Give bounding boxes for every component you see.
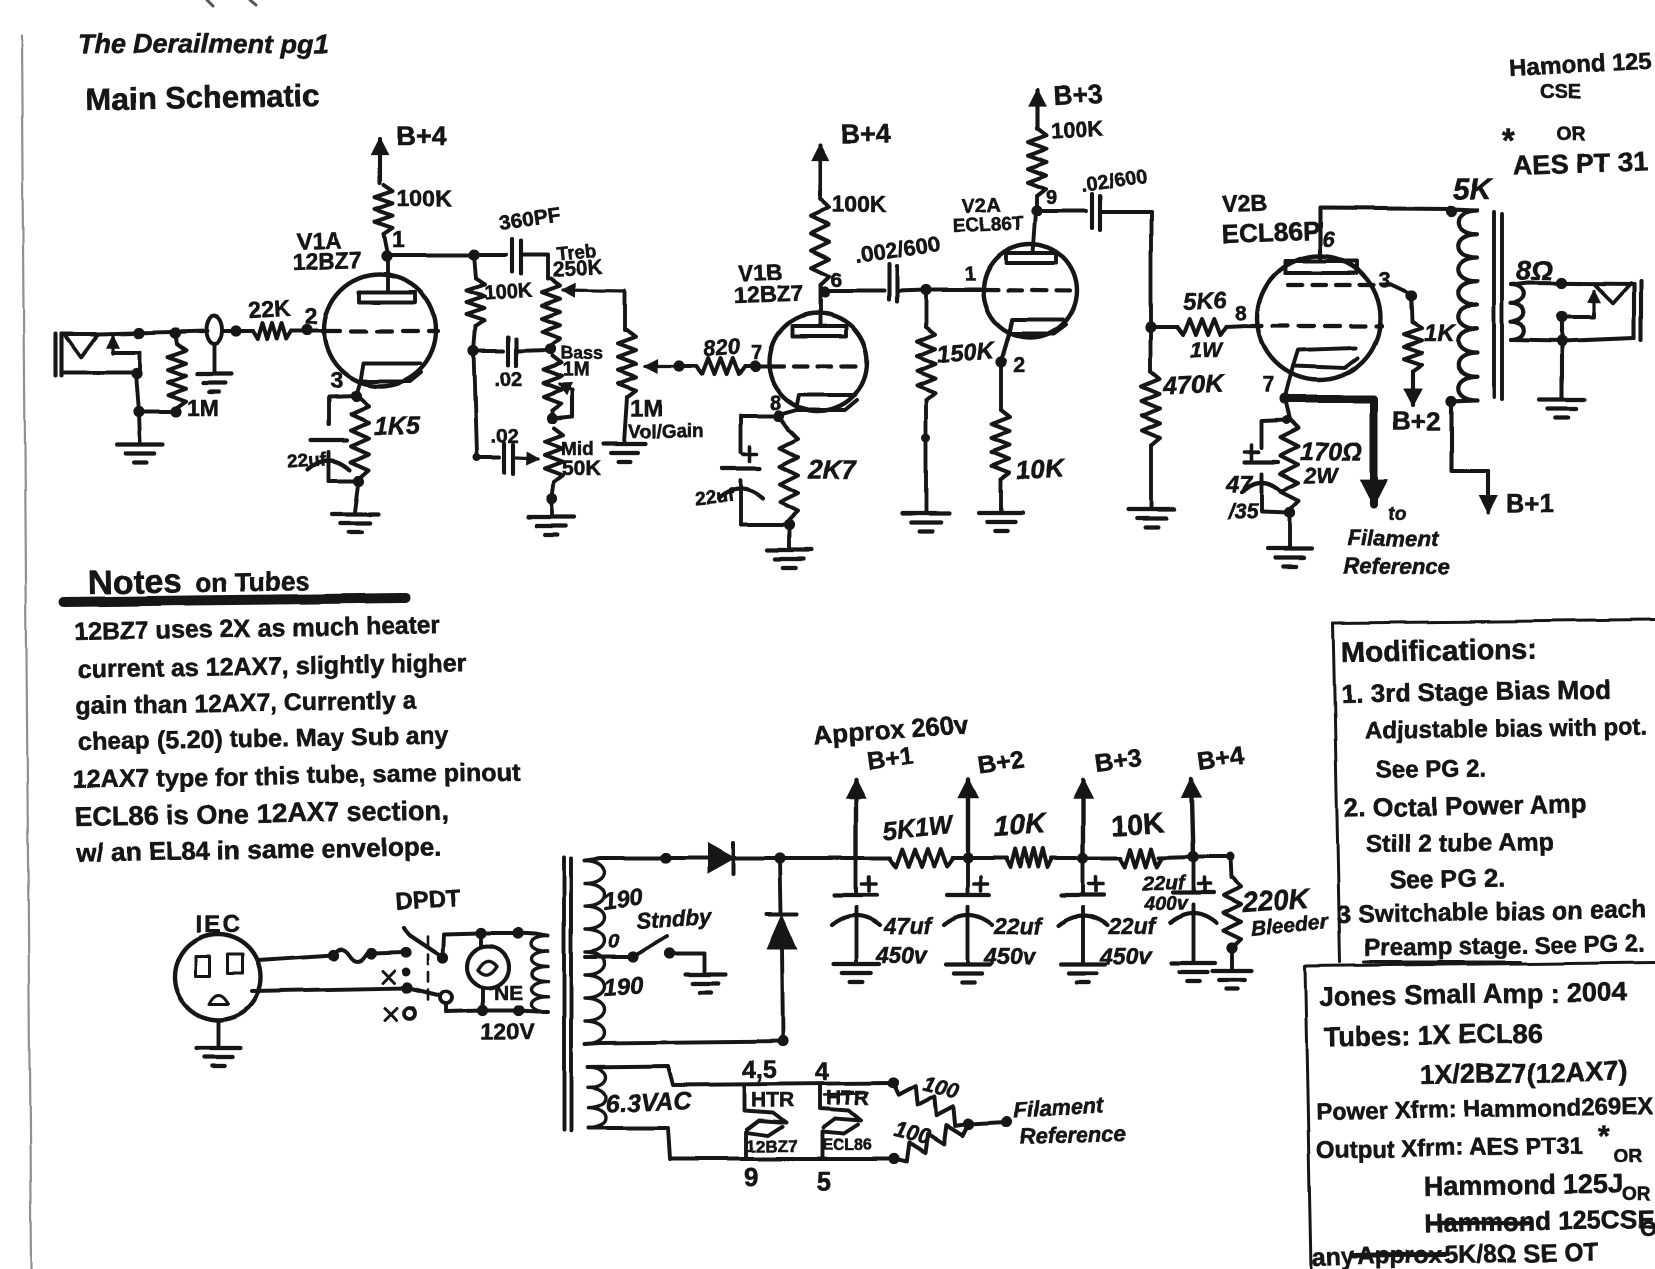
net B+2 arrow (screen) [1411,371,1415,405]
OT core lines [1492,212,1496,397]
svg-text:2K7: 2K7 [807,454,857,484]
wire down to ground (speaker) [1560,317,1564,399]
resistor 220K bleeder [1230,857,1231,878]
wire: throw1 up and right (120V top rail) [443,933,536,958]
svg-text:250K: 250K [552,256,604,282]
resistor 10K (B+2 to B+3) [1006,849,1052,867]
wire: tone stack mid leg [474,351,477,455]
heater connector 12BZ7 upper [744,1086,786,1130]
switch pole 2 dot [401,982,412,993]
V2B cathode [1293,348,1358,368]
svg-text:1W: 1W [1190,339,1224,362]
wire: 100K to node 9 [1035,196,1039,211]
V2A plate bar [1006,253,1056,263]
svg-text:on Tubes: on Tubes [196,566,310,598]
svg-text:9: 9 [1046,187,1057,209]
junction dot [660,852,671,863]
switch lever 1 [410,935,443,957]
heater connector 12BZ7 lower [746,1127,782,1157]
wire: throw2 down and right (120V bottom rail) [446,1004,538,1012]
fuse squiggle [333,949,372,961]
heater connector ECL86 lower [822,1125,858,1156]
junction dot [777,1035,788,1046]
wire: 6.3 top to heater bus [588,1066,892,1085]
resistor 100K (slope) [474,255,476,279]
thick underline bar [64,598,406,602]
svg-text:Stndby: Stndby [636,904,714,934]
ground (standby) [686,972,726,976]
capacitor 22uf 450v filter (B+3) [1081,858,1085,894]
resistor 100K plate V1A [375,185,393,234]
junction dot [468,345,479,356]
resistor 22K (series input) [253,323,291,339]
V2A cathode lead [1001,334,1009,361]
svg-text:1X/2BZ7(12AX7): 1X/2BZ7(12AX7) [1420,1056,1628,1090]
resistor 1M (input shunt) [175,333,177,344]
svg-text:4: 4 [815,1058,829,1086]
svg-text:1: 1 [964,264,975,286]
node dot plate V1A [381,250,392,261]
OT secondary coil [1511,285,1524,340]
junction dot [230,325,241,336]
svg-text:100K: 100K [832,191,887,217]
tube V2A envelope [983,244,1077,338]
ground (input) [139,412,140,443]
resistor 100K plate V1B [811,199,829,285]
node dot OT primary top [1445,205,1456,216]
ground (V1A cathode) [355,481,359,512]
svg-text:V2B: V2B [1222,189,1268,217]
ground (150K) [903,511,949,515]
junction dot 100s [963,1118,974,1129]
svg-text:190: 190 [603,972,645,1002]
junction dot [1145,321,1156,332]
svg-text:Preamp stage. See PG 2.: Preamp stage. See PG 2. [1364,930,1646,962]
svg-text:1K: 1K [1424,320,1456,347]
V1A plate lead [386,256,390,292]
net B+4 arrow (V1B) [818,145,822,196]
node dot [783,519,794,530]
junction dot [169,327,180,338]
treble wiper arrow [563,290,625,291]
wire: standby throw to ground [670,953,705,973]
wire: V1A plate to tone stack [387,253,474,257]
PT core lines [562,857,566,1130]
ground (10K) [979,511,1023,515]
svg-text:gain than 12AX7, Currently a: gain than 12AX7, Currently a [76,686,418,720]
svg-text:1M: 1M [562,359,590,381]
V1A plate bar [359,292,415,302]
svg-text:47: 47 [1225,471,1254,498]
node dot cathode V2B [1280,394,1291,405]
svg-text:HTR: HTR [751,1089,794,1112]
svg-text:1: 1 [392,226,405,252]
junction dot B+4 [1187,851,1198,862]
svg-text:8: 8 [1235,302,1247,325]
junction dot [774,852,785,863]
svg-text:O: O [1640,1216,1655,1241]
V2A cathode [1009,320,1066,334]
net B+3 arrow (supply) [1081,780,1085,858]
pot Bass 1M [543,356,561,410]
capacitor .02 (bass) [474,349,503,353]
svg-text:Main Schematic: Main Schematic [86,78,321,117]
wire: screen to 1K [1392,285,1411,294]
junction dot [327,949,338,960]
speaker jack switch arrow [1592,291,1595,313]
svg-text:12BZ7: 12BZ7 [733,280,803,308]
input jack tip contact [65,334,98,357]
svg-text:22uf: 22uf [993,913,1044,939]
V2B screen grid (dashed) [1288,283,1392,287]
wire: 6.3 bottom to heater bus [588,1128,894,1159]
svg-text:150K: 150K [936,337,997,368]
V2B cathode lead [1285,366,1293,397]
net B+1 arrow [1486,471,1490,512]
wire: HV winding bottom [585,1041,783,1044]
wire: to filament reference point [969,1122,1007,1124]
junction dot mid bottom [546,493,557,504]
svg-text:2. Octal Power Amp: 2. Octal Power Amp [1344,789,1588,823]
standby switch lever [633,936,667,957]
junction dot bass bottom [546,412,557,423]
PT HV secondary coil [585,860,605,1044]
PT primary coil [532,936,549,1012]
V1A cathode lead [356,381,360,395]
svg-text:100K: 100K [484,280,534,305]
node dot [1284,507,1295,518]
junction dot grid V1B [749,360,760,371]
net B+4 arrow (supply) [1191,779,1193,857]
switch gang dashed link [427,936,430,1000]
capacitor .02 (mid) [477,456,499,460]
wire: fuse to switch pole 1 [371,952,405,953]
svg-text:2: 2 [1013,354,1025,377]
standby throw dot [664,947,675,958]
V1B plate lead [818,292,822,326]
svg-text:Hammond 125J: Hammond 125J [1424,1169,1624,1202]
svg-text:6: 6 [1322,227,1335,252]
capacitor .002/600 coupling [824,289,884,293]
svg-text:ECL86T: ECL86T [952,214,1024,237]
svg-text:B+4: B+4 [396,121,446,151]
svg-text:22uf: 22uf [694,485,736,510]
ferrite bead / grommet [206,316,222,344]
tube V1A envelope [324,274,436,386]
node dot OT primary bottom [1445,395,1456,406]
wire: bead to 22K [222,329,253,333]
pot Treble 250K [542,279,560,345]
junction dot [133,406,144,417]
ground for bead [212,344,216,372]
svg-text:10K: 10K [1110,807,1165,843]
svg-text:3 Switchable bias on each: 3 Switchable bias on each [1337,896,1647,929]
svg-text:450v: 450v [1099,943,1152,969]
svg-text:820: 820 [703,333,742,361]
svg-text:B+2: B+2 [1392,406,1440,436]
resistor 100 (heater bottom) [894,1124,969,1162]
ground (22uf B+2) [946,962,990,966]
svg-text:NE: NE [494,982,523,1005]
small dot [473,454,481,462]
wire: center tap to standby switch [585,955,632,959]
wire: jack switch to sleeve [113,352,140,373]
svg-text:.02: .02 [494,369,522,391]
svg-text:3: 3 [330,367,343,393]
svg-text:12BZ7: 12BZ7 [292,247,362,275]
IEC inlet connector [175,934,261,1020]
svg-text:1. 3rd Stage Bias Mod: 1. 3rd Stage Bias Mod [1341,674,1612,709]
unused contact X [382,971,394,983]
junction dot pin 2 [301,324,312,335]
svg-text:50K: 50K [562,457,601,480]
resistor 5K6 1W [1151,325,1177,329]
ground (V1B cathode) [787,525,791,548]
svg-text:2: 2 [305,303,318,329]
svg-text:100K: 100K [397,185,452,211]
speaker jack J2 [1632,284,1636,338]
svg-text:12BZ7: 12BZ7 [746,1137,797,1156]
NE lamp leads [479,933,483,946]
switch lever 2 [407,988,440,996]
wire: top rail to D2 [780,858,781,914]
wire: 22K to V1A grid pin 2 [291,329,325,333]
resistor 10K (B+3 to B+4) [1120,849,1162,867]
wire: B+4 node to bleeder [1193,855,1230,859]
node dot cathode V1B [773,410,784,421]
junction dot heater top [887,1077,898,1088]
svg-text:CSE: CSE [1540,81,1581,103]
unused contact X 2 [385,1008,397,1020]
node dot cathode bottom [353,475,364,486]
speaker jack tip contact [1595,283,1631,303]
svg-text:OR: OR [1556,124,1585,145]
svg-text:1M: 1M [630,395,663,422]
svg-text:22uf: 22uf [287,449,328,473]
svg-text:Vol/Gain: Vol/Gain [628,422,704,443]
standby switch pole dot [627,951,638,962]
net B+4 arrow (V1A) [378,139,382,183]
node dot [1406,290,1417,301]
svg-text:B+3: B+3 [1052,78,1104,111]
svg-text:to: to [1388,504,1406,525]
svg-text:6.3VAC: 6.3VAC [605,1087,693,1118]
node dot bleeder bottom [1226,942,1237,953]
svg-text:7: 7 [1262,372,1274,397]
tube V1B envelope [769,313,867,411]
resistor 1K screen [1412,296,1413,322]
input jack J1 [54,334,58,375]
svg-text:120V: 120V [481,1019,535,1045]
svg-text:1K5: 1K5 [374,412,421,440]
ground (speaker jack) [1540,398,1584,402]
junction dot [920,284,931,295]
modifications box border [1333,620,1655,623]
ground (IEC) [216,1020,220,1046]
wire: 1M bottom to ground node [139,410,176,414]
svg-text:Modifications:: Modifications: [1341,634,1538,669]
svg-text:5K: 5K [1453,173,1494,206]
wire: HV top to rectifier [585,858,708,860]
svg-text:OR: OR [1614,1146,1643,1167]
input jack switch arrow [111,336,114,353]
diode D1 (series rectifier) [708,844,733,872]
svg-text:ECL86P: ECL86P [1221,216,1320,249]
svg-text:Filament: Filament [1347,526,1439,551]
wire: secondary bottom to jack [1511,338,1634,341]
junction dot B+3 [1077,852,1088,863]
V2A plate lead [1033,212,1036,253]
capacitor 22uf (V1B cathode) [741,416,779,452]
svg-text:/35: /35 [1227,499,1259,524]
output transformer primary coil [1458,210,1477,400]
svg-text:10K: 10K [992,807,1047,842]
svg-text:0: 0 [608,931,619,953]
svg-text:470K: 470K [1162,369,1226,400]
junction dot vol wiper [673,360,684,371]
net B+1 arrow (supply) [854,780,858,858]
net B+2 arrow (supply) [966,780,970,858]
switch throw 1 dot [437,952,448,963]
svg-text:22uf: 22uf [1142,873,1186,895]
wire: treble wiper to volume pot [623,291,627,330]
wire: jack tip to ferrite bead [98,331,207,334]
svg-text:*: * [1598,1120,1610,1153]
vol wiper arrow [645,364,679,367]
wire: 100K to plate node [384,234,388,255]
svg-text:DPDT: DPDT [395,884,462,916]
svg-text:w/ an EL84 in same envelope.: w/ an EL84 in same envelope. [75,832,442,868]
ground (170 ohm) [1288,513,1292,548]
PT 6.3VAC winding [588,1067,606,1128]
tube V2B envelope [1257,256,1381,380]
svg-text:OR: OR [1622,1184,1651,1205]
ground (mid pot) [550,499,554,516]
V1A cathode [360,363,421,381]
junction dot [365,947,376,958]
svg-text:2W: 2W [1304,463,1340,488]
switch throw 2 (open circle) [440,992,452,1004]
svg-text:5K6: 5K6 [1182,287,1228,316]
resistor 100 (heater top) [893,1083,969,1126]
resistor 820 grid stopper [679,364,696,368]
node dot 9 [1031,205,1042,216]
junction dot [468,249,479,260]
wire: jack arrow to node [1563,313,1594,317]
resistor 5K 1W [889,849,953,867]
ground (22uf B+4) [1171,961,1215,965]
svg-text:Reference: Reference [1019,1120,1126,1149]
svg-text:AES PT 31: AES PT 31 [1512,146,1648,181]
svg-text:.02: .02 [491,426,519,448]
svg-text:Adjustable bias with pot.: Adjustable bias with pot. [1365,713,1648,745]
svg-text:400v: 400v [1144,894,1189,915]
switch pole 1 dot [400,946,411,957]
V1B grid (dashed) [770,364,866,368]
svg-text:See PG 2.: See PG 2. [1376,755,1487,784]
svg-text:B+4: B+4 [841,119,891,149]
ground (bleeder) [1230,948,1234,970]
wire: sleeve junction down [136,373,139,412]
svg-text:Still 2 tube Amp: Still 2 tube Amp [1366,828,1554,859]
svg-text:1M: 1M [187,395,219,421]
capacitor 22uf (V1A cathode bypass) [329,396,356,424]
svg-text:47uf: 47uf [883,913,934,939]
capacitor 360PF [474,253,506,257]
resistor 1K5 cathode [351,398,369,478]
junction dot treble/bass [544,343,555,354]
svg-text:170Ω: 170Ω [1301,438,1362,466]
neon lamp NE [467,946,509,988]
jones box border [1305,962,1655,966]
capacitor 22uf 400v filter (B+4) [1191,857,1195,892]
ground (22uf B+3) [1061,962,1105,966]
wire: OT bottom to B+1 [1451,401,1488,471]
ground (vol pot) [624,397,627,443]
page edge scan line [22,35,31,1269]
svg-text:100K: 100K [1050,115,1104,143]
wire: coupling down to 5K6/470K node [1149,212,1153,327]
junction dot [1556,311,1567,322]
V1B cathode [797,395,857,410]
resistor 2K7 [779,416,789,430]
pot Mid 50K [545,428,563,482]
V2B plate lead and wire to OT [1320,208,1451,261]
svg-text:450v: 450v [875,942,928,968]
capacitor 22uf 450v filter (B+2) [966,858,970,894]
node dot plate V1B [818,286,829,297]
ground (47uf) [833,962,879,966]
mid cap arrow into pot [516,458,538,459]
diode D2 (shunt) [767,912,797,916]
net B+3 arrow [1035,90,1039,128]
resistor 100K plate V2A [1028,128,1046,196]
thick wire: cathode to filament reference [1285,399,1374,470]
V1B plate bar [792,326,846,336]
V2B plate bar [1285,261,1357,273]
junction dot [133,327,144,338]
junction dot [1556,335,1567,346]
svg-text:The Derailment pg1: The Derailment pg1 [78,29,329,59]
svg-text:Jones Small Amp : 2004: Jones Small Amp : 2004 [1319,977,1628,1012]
heater connector ECL86 upper [820,1084,861,1128]
node dot cathode V1A [350,390,361,401]
svg-text:See PG 2.: See PG 2. [1390,865,1506,895]
wire: B+ rail segments [856,856,890,860]
svg-text:9: 9 [744,1162,758,1192]
resistor 170 ohm 2W cathode [1285,399,1290,419]
V2B control grid (dashed) [1247,324,1382,328]
bass wiper arrow [552,390,572,418]
wire: IEC to fuse [258,955,333,960]
svg-text:any: any [1311,1243,1355,1269]
V1B cathode lead [779,410,797,415]
junction dot [1556,277,1567,288]
V2A grid (dashed) [984,290,1075,291]
capacitor 47uf 450v filter [854,858,858,894]
junction dot filament ref [1002,1117,1013,1128]
svg-text:10K: 10K [1015,453,1067,486]
svg-text:ECL86: ECL86 [822,1137,872,1154]
junction dot B+2 [962,852,973,863]
V1A grid (dashed) [325,329,438,333]
wire: D2 to HV bottom [782,948,783,1040]
svg-text:Reference: Reference [1343,554,1449,579]
node dot cathode V2A [995,356,1006,367]
wire: secondary top to speaker jack [1511,283,1634,285]
junction dot heater bottom [888,1153,899,1164]
wire: coupling to V2A grid [926,288,984,292]
